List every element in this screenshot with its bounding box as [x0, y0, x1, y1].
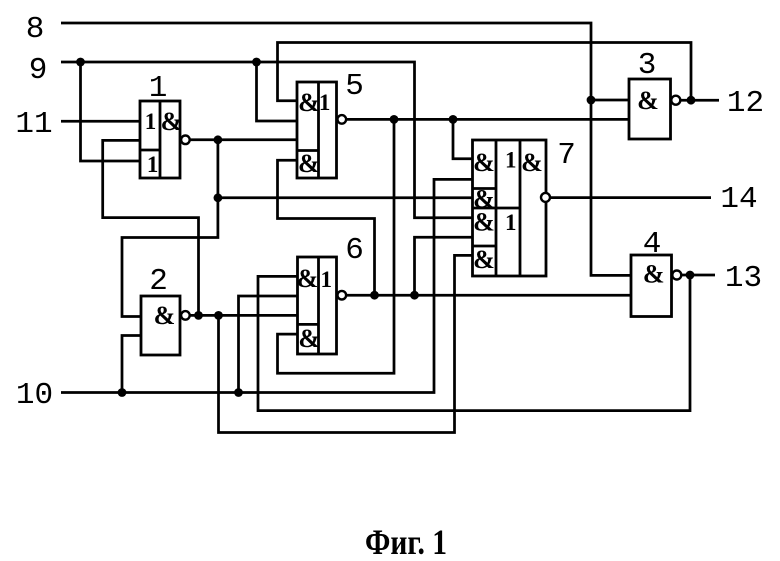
- wire 8 to gate 3 pin: [591, 99, 629, 102]
- svg-text:4: 4: [643, 227, 662, 262]
- svg-text:&: &: [473, 245, 495, 274]
- gate 2 (NAND): [141, 296, 180, 355]
- junction on line 9 at x=80: [76, 58, 85, 67]
- junction gate 6 output A: [370, 291, 379, 300]
- svg-text:1: 1: [319, 90, 331, 115]
- svg-text:1: 1: [505, 148, 517, 173]
- junction on line 10 at x=238: [234, 388, 243, 397]
- svg-text:1: 1: [147, 152, 159, 177]
- svg-text:1: 1: [145, 109, 157, 134]
- wire gate 2 output: [190, 314, 298, 317]
- wire gate 5 output: [346, 118, 629, 121]
- svg-text:13: 13: [725, 261, 762, 296]
- svg-text:Фиг. 1: Фиг. 1: [365, 522, 447, 561]
- gate 6 (AND-OR-invert): [297, 257, 337, 354]
- svg-text:1: 1: [320, 267, 332, 292]
- wire gate 1 output to gate 7: [218, 196, 473, 199]
- gate 3 (NAND): [629, 79, 671, 139]
- wire gate 7 output 14: [550, 196, 711, 199]
- svg-text:3: 3: [638, 48, 657, 83]
- svg-text:&: &: [298, 88, 320, 117]
- svg-text:8: 8: [26, 12, 45, 47]
- wire 10 branch to gate 2: [122, 336, 141, 393]
- svg-text:&: &: [521, 148, 543, 177]
- svg-text:1: 1: [505, 210, 517, 235]
- wire gate 1 output to gate 2 input: [122, 140, 218, 317]
- svg-text:&: &: [154, 301, 176, 330]
- wire gate 1 output: [190, 138, 297, 141]
- junction gate 2 output A: [194, 311, 203, 320]
- wire output 12 feedback to gate 5: [278, 43, 692, 101]
- wire gate 4 output 13: [682, 274, 715, 277]
- gate 5 (AND-OR-invert): [297, 82, 337, 178]
- wire gate 3 output 12: [681, 99, 719, 102]
- svg-text:2: 2: [149, 264, 168, 299]
- gate 1 output bubble: [181, 136, 190, 145]
- wire 9 branch to gate 1: [81, 62, 141, 161]
- junction gate 3 output: [687, 96, 696, 105]
- svg-text:10: 10: [16, 378, 53, 413]
- svg-text:12: 12: [727, 86, 764, 121]
- svg-text:&: &: [161, 107, 183, 136]
- junction gate 1 branch node: [214, 193, 223, 202]
- gate 5 output bubble: [338, 115, 347, 124]
- junction gate 1 output: [214, 135, 223, 144]
- svg-text:&: &: [298, 149, 320, 178]
- wire gate 6 output to gate 7: [415, 237, 473, 295]
- wire input 8: [61, 23, 631, 275]
- junction gate 6 output B: [410, 291, 419, 300]
- wire output 13 feedback to gate 6: [258, 275, 690, 411]
- wire input 11: [61, 120, 140, 123]
- gate 2 output bubble: [181, 311, 190, 320]
- gate 7 output bubble: [541, 193, 550, 202]
- wire gate 5 output to gate 7: [453, 119, 473, 158]
- junction gate 5 output B: [449, 115, 458, 124]
- svg-text:&: &: [473, 148, 495, 177]
- svg-text:11: 11: [15, 107, 52, 142]
- junction on line 10 at x=122: [118, 388, 127, 397]
- svg-text:7: 7: [557, 138, 576, 173]
- wire input 10: [61, 179, 473, 392]
- wire input 9: [61, 62, 473, 218]
- svg-text:&: &: [473, 207, 495, 236]
- svg-text:9: 9: [29, 53, 48, 88]
- wire gate 5 output to gate 6: [278, 119, 395, 373]
- gate 4 (NAND): [631, 255, 672, 317]
- wire gate 2 output feedback to gate 1: [103, 140, 199, 315]
- junction on line 9 at x=256: [252, 58, 261, 67]
- svg-text:&: &: [637, 86, 659, 115]
- wire gate 2 output to gate 7: [219, 255, 473, 432]
- svg-text:&: &: [298, 324, 320, 353]
- wire 9 branch to gate 5: [257, 62, 298, 121]
- junction gate 5 output A: [390, 115, 399, 124]
- svg-text:&: &: [297, 264, 319, 293]
- wire gate 6 output: [346, 294, 631, 297]
- junction gate 2 output B: [214, 311, 223, 320]
- gate 6 output bubble: [338, 291, 347, 300]
- svg-text:&: &: [643, 260, 665, 289]
- svg-text:5: 5: [345, 69, 364, 104]
- junction line 8 at gate 3 input: [587, 96, 596, 105]
- wire 10 branch to gate 6: [239, 296, 298, 393]
- gate 7 (AND-OR-invert, 3 columns): [473, 140, 547, 276]
- junction gate 4 output: [686, 271, 695, 280]
- gate 1 (AND-OR-invert): [140, 101, 182, 178]
- svg-text:14: 14: [720, 182, 757, 217]
- gate 4 output bubble: [672, 271, 681, 280]
- svg-text:6: 6: [345, 233, 364, 268]
- wire gate 6 output feedback to gate 5: [278, 160, 375, 295]
- svg-text:1: 1: [149, 71, 168, 106]
- gate 3 output bubble: [671, 96, 680, 105]
